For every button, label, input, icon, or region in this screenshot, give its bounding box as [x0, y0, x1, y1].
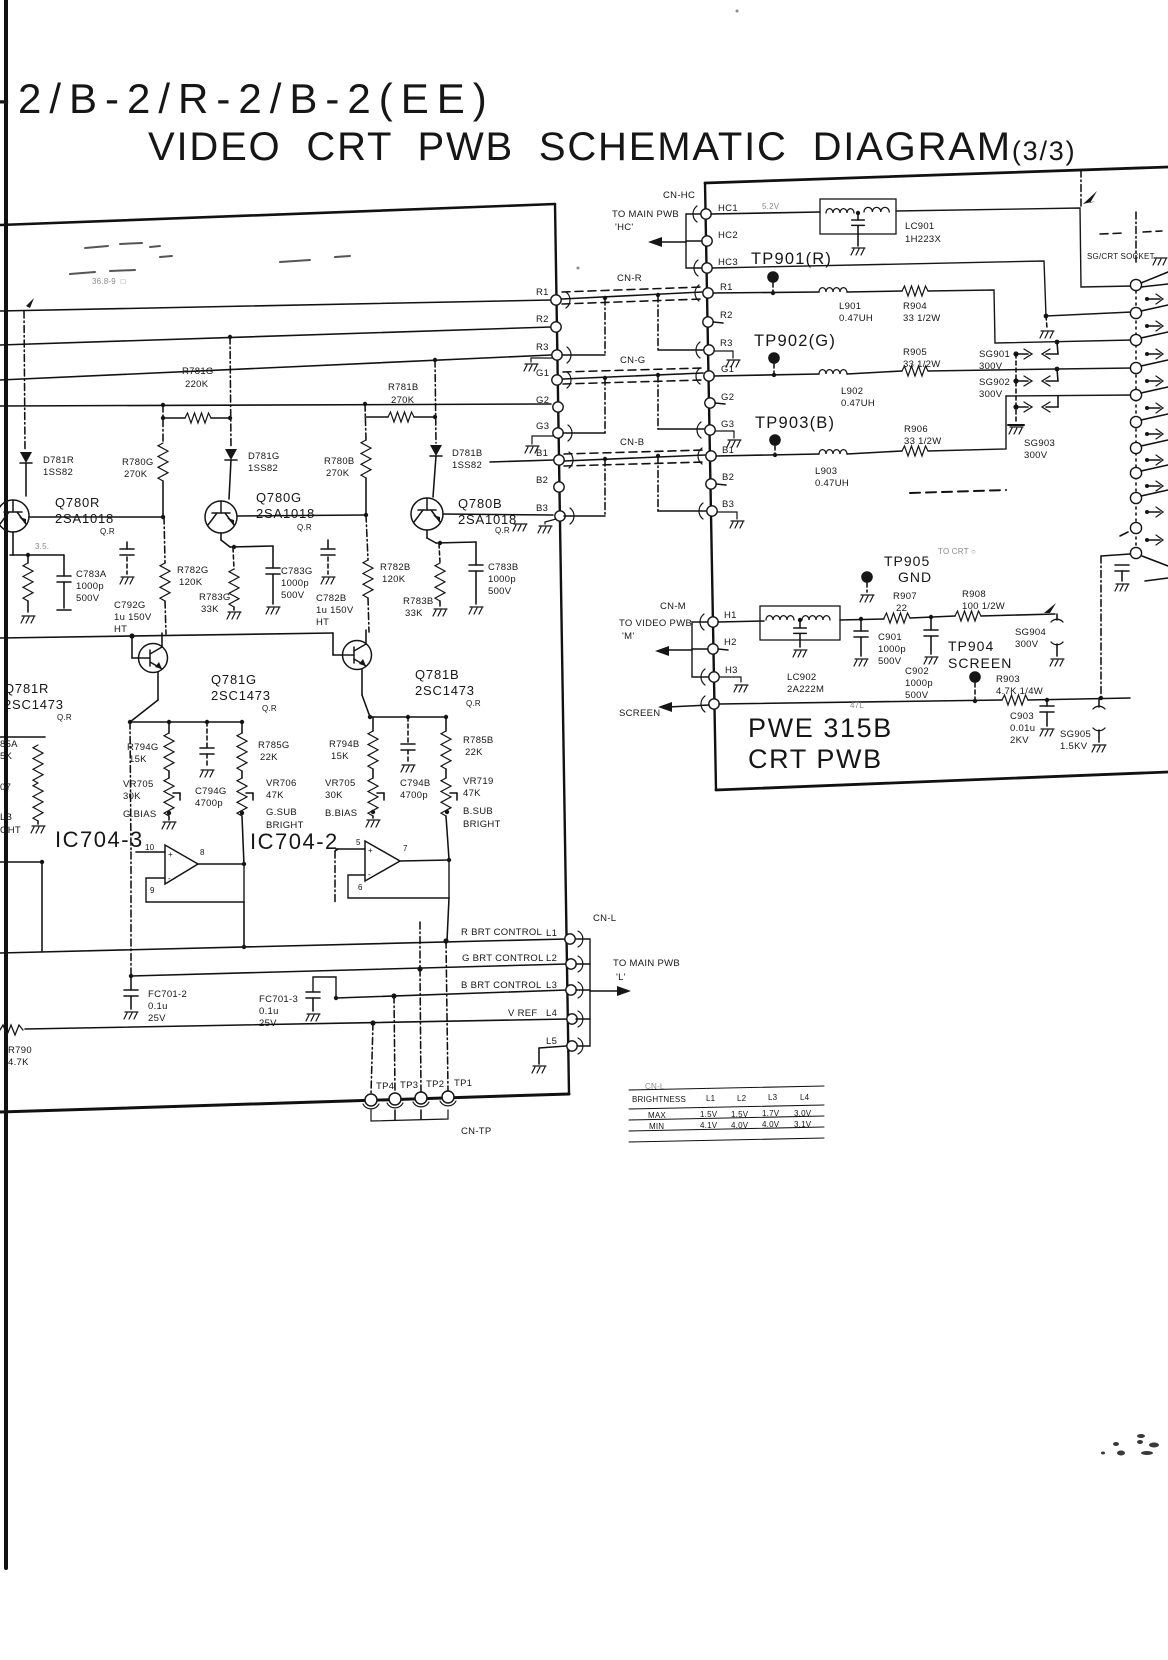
- svg-text:Q781R: Q781R: [4, 681, 49, 696]
- right box pins H1-H3 SCREEN: [708, 617, 718, 627]
- svg-text:30K: 30K: [123, 791, 141, 802]
- resistor R790 4.7K: [0, 1025, 23, 1035]
- svg-text:G3: G3: [721, 419, 734, 430]
- svg-text:B.BIAS: B.BIAS: [325, 808, 357, 819]
- socket pin 6: [1130, 416, 1141, 427]
- svg-text:HC3: HC3: [718, 257, 738, 268]
- socket pin 7: [1130, 442, 1141, 453]
- svg-text:2SA1018: 2SA1018: [256, 506, 315, 521]
- svg-text:CN-M: CN-M: [660, 601, 686, 612]
- svg-text:C783G: C783G: [281, 566, 313, 577]
- svg-text:'L': 'L': [616, 972, 626, 983]
- svg-text:L5: L5: [546, 1036, 557, 1047]
- svg-text:R790: R790: [8, 1045, 32, 1056]
- svg-text:B1: B1: [536, 448, 548, 459]
- svg-text:C783B: C783B: [488, 562, 519, 573]
- svg-text:L902: L902: [841, 386, 863, 397]
- svg-text:2SC1473: 2SC1473: [415, 683, 475, 698]
- svg-text:G3: G3: [536, 421, 549, 432]
- svg-text:Q781G: Q781G: [211, 672, 257, 687]
- node arrow mark: [26, 298, 34, 308]
- svg-text:1000p: 1000p: [488, 574, 516, 585]
- cable CN-G: [563, 368, 703, 384]
- svg-text:SG901: SG901: [979, 349, 1010, 360]
- connector CN-HC bracket: [686, 214, 702, 268]
- svg-text:33 1/2W: 33 1/2W: [903, 359, 940, 370]
- svg-text:TP905: TP905: [884, 553, 930, 569]
- resistor R785G 22K: [241, 722, 243, 733]
- svg-text:CN-L: CN-L: [645, 1082, 665, 1091]
- G bias rail: [157, 672, 159, 700]
- diode D781B 1SS82: [430, 445, 442, 456]
- svg-text:SG/CRT SOCKET: SG/CRT SOCKET: [1087, 252, 1155, 261]
- pot VR705 30K G.BIAS: [168, 771, 170, 778]
- svg-text:4.1V: 4.1V: [700, 1121, 718, 1130]
- spark gap SG905 1.5KV: [1098, 698, 1100, 707]
- svg-text:2SA1018: 2SA1018: [55, 511, 114, 526]
- svg-text:R785G: R785G: [258, 740, 290, 751]
- cable CN-R: [562, 287, 702, 304]
- socket arrow: [1145, 484, 1149, 488]
- wire to socket pin3: [928, 290, 1133, 343]
- resistor R794G 15K: [168, 722, 170, 733]
- svg-text:TP1: TP1: [454, 1078, 472, 1089]
- socket arrow: [1145, 458, 1149, 462]
- inductor L901 0.47UH: [819, 288, 847, 292]
- svg-text:R906: R906: [904, 424, 928, 435]
- svg-text:LB: LB: [0, 812, 12, 823]
- svg-text:10: 10: [145, 843, 155, 852]
- svg-text:0.1u: 0.1u: [148, 1001, 168, 1012]
- svg-text:0.01u: 0.01u: [1010, 723, 1035, 734]
- svg-text:C782B: C782B: [316, 593, 347, 604]
- svg-text:SG904: SG904: [1015, 627, 1046, 638]
- svg-text:R905: R905: [903, 347, 927, 358]
- svg-text:0.47UH: 0.47UH: [839, 313, 873, 324]
- svg-text:Q.R: Q.R: [100, 527, 115, 536]
- wire HC1 to LC901: [711, 212, 820, 214]
- svg-text:22K: 22K: [260, 752, 278, 763]
- resistor R782B 120K: [366, 515, 368, 560]
- svg-text:1000p: 1000p: [281, 578, 309, 589]
- svg-text:TP902(G): TP902(G): [754, 332, 836, 350]
- vertical chain x=163: [162, 405, 164, 443]
- svg-text:TO MAIN PWB: TO MAIN PWB: [612, 209, 679, 220]
- left box right edge: [555, 204, 569, 1094]
- svg-text:270K: 270K: [124, 469, 148, 480]
- svg-text:L4: L4: [800, 1093, 810, 1102]
- stray dashed line: [910, 490, 1006, 493]
- svg-text:15K: 15K: [129, 754, 147, 765]
- vertical to TP4: [371, 1023, 373, 1094]
- svg-text:D781R: D781R: [43, 455, 74, 466]
- svg-text:R908: R908: [962, 589, 986, 600]
- wire Q780B collector node: [426, 530, 428, 538]
- svg-text:SG902: SG902: [979, 377, 1010, 388]
- svg-text:300V: 300V: [1015, 639, 1039, 650]
- svg-text:85A: 85A: [0, 739, 18, 750]
- svg-text:G.BIAS: G.BIAS: [123, 809, 156, 820]
- socket pin 1: [1130, 279, 1141, 290]
- pot VR719 47K B.SUB BRIGHT: [445, 769, 447, 778]
- svg-text:1000p: 1000p: [905, 678, 933, 689]
- svg-text:L903: L903: [815, 466, 837, 477]
- svg-text:R785B: R785B: [463, 735, 494, 746]
- ground at right G3: [715, 431, 734, 438]
- svg-text:7: 7: [403, 844, 408, 853]
- capacitor FC701-3 0.1u 25V: [313, 977, 336, 998]
- svg-text:GND: GND: [898, 569, 932, 585]
- ground at left R3: [531, 358, 552, 362]
- svg-text:R781B: R781B: [388, 382, 419, 393]
- vertical chain x=435: [435, 360, 436, 443]
- wire B1 row right box: [716, 454, 819, 456]
- svg-text:25V: 25V: [259, 1018, 277, 1029]
- svg-text:Q780R: Q780R: [55, 495, 100, 510]
- svg-text:L3: L3: [546, 980, 557, 991]
- svg-text:R2: R2: [720, 310, 733, 321]
- svg-text:500V: 500V: [281, 590, 305, 601]
- svg-text:-2/B-2/R-2/B-2(EE): -2/B-2/R-2/B-2(EE): [0, 75, 495, 122]
- svg-text:MIN: MIN: [649, 1122, 664, 1131]
- svg-text:TP904: TP904: [948, 638, 994, 654]
- socket pin 10: [1130, 522, 1141, 533]
- svg-text:H1: H1: [724, 610, 737, 621]
- svg-text:1000p: 1000p: [76, 581, 104, 592]
- svg-text:TP901(R): TP901(R): [751, 250, 832, 268]
- svg-text:5.2V: 5.2V: [762, 202, 780, 211]
- B bias rail: [361, 669, 363, 695]
- vertical to TP3: [394, 996, 395, 1093]
- capacitor C782B 1u 150V HT: [327, 540, 329, 549]
- svg-text:2SC1473: 2SC1473: [4, 697, 64, 712]
- svg-text:33 1/2W: 33 1/2W: [904, 436, 941, 447]
- resistor R785A cut: [33, 745, 43, 783]
- svg-text:4.0V: 4.0V: [731, 1121, 749, 1130]
- svg-text:0.47UH: 0.47UH: [841, 398, 875, 409]
- svg-text:270K: 270K: [326, 468, 350, 479]
- socket pin 9: [1130, 492, 1141, 503]
- vertical chain x=365: [365, 404, 366, 440]
- svg-text:D781G: D781G: [248, 451, 280, 462]
- svg-text:1000p: 1000p: [878, 644, 906, 655]
- vertical to TP1: [446, 941, 448, 1091]
- test point TP4: [365, 1094, 377, 1106]
- svg-text:4.7K 1/4W: 4.7K 1/4W: [996, 686, 1043, 697]
- wire L5 stub and ground: [539, 1046, 566, 1048]
- right box bottom edge: [716, 772, 1168, 790]
- svg-text:36.8-9 □: 36.8-9 □: [92, 277, 126, 286]
- svg-text:Q.R: Q.R: [262, 704, 277, 713]
- capacitor C902 1000p 500V: [930, 617, 932, 630]
- svg-text:VR705: VR705: [123, 779, 154, 790]
- svg-text:C783A: C783A: [76, 569, 107, 580]
- wire: [1028, 698, 1130, 700]
- svg-text:500V: 500V: [76, 593, 100, 604]
- svg-text:OHT: OHT: [0, 825, 21, 836]
- svg-text:BRIGHT: BRIGHT: [463, 819, 501, 830]
- svg-text:BRIGHTNESS: BRIGHTNESS: [632, 1095, 686, 1104]
- svg-text:120K: 120K: [382, 574, 406, 585]
- svg-text:C902: C902: [905, 666, 929, 677]
- pen arrow mark: [1083, 191, 1097, 204]
- svg-text:300V: 300V: [979, 361, 1003, 372]
- svg-text:HC2: HC2: [718, 230, 738, 241]
- stub H2: [718, 649, 728, 650]
- resistor R905 33 1/2W: [902, 366, 928, 376]
- svg-text:1SS82: 1SS82: [248, 463, 278, 474]
- svg-text:'HC': 'HC': [615, 222, 634, 233]
- svg-text:R2: R2: [536, 314, 549, 325]
- CN-TP bracket: [371, 1110, 448, 1121]
- capacitor C794B 4700p: [407, 717, 409, 744]
- faint top dot: [736, 10, 739, 13]
- svg-text:MAX: MAX: [648, 1111, 666, 1120]
- socket arrow: [1145, 432, 1149, 436]
- svg-text:G2: G2: [536, 395, 549, 406]
- resistor R783A: [27, 555, 29, 563]
- spark gap SG903 300V: [1013, 404, 1018, 409]
- svg-text:L2: L2: [546, 953, 557, 964]
- svg-text:B BRT CONTROL: B BRT CONTROL: [461, 980, 542, 991]
- svg-text:220K: 220K: [185, 379, 209, 390]
- stub B2: [716, 484, 726, 485]
- svg-text:R783B: R783B: [403, 596, 434, 607]
- inductor L903 0.47UH: [819, 450, 847, 454]
- svg-text:C794G: C794G: [195, 786, 227, 797]
- wire to socket pin4: [928, 368, 1133, 371]
- ground: [21, 616, 35, 623]
- vertical to TP2: [420, 922, 421, 1092]
- vertical chain x=230: [230, 337, 231, 447]
- wire G1 row right box: [714, 374, 819, 376]
- svg-text:2SC1473: 2SC1473: [211, 688, 271, 703]
- wire Q780G collector node: [220, 533, 222, 540]
- svg-text:47K: 47K: [463, 788, 481, 799]
- arrow to main pwb L: [590, 990, 620, 992]
- svg-text:4700p: 4700p: [195, 798, 223, 809]
- screen wire: [719, 700, 1002, 704]
- capacitor at socket bottom: [1115, 565, 1129, 571]
- vertical from screen wire to socket: [1100, 556, 1102, 698]
- svg-text:CN-R: CN-R: [617, 273, 642, 284]
- capacitor C783B 1000p 500V: [475, 542, 477, 565]
- resistor R782G 120K: [164, 517, 165, 563]
- right box left edge: [705, 183, 716, 790]
- svg-text:PWE 315B: PWE 315B: [748, 713, 893, 743]
- diode D781G 1SS82: [225, 449, 237, 460]
- transistor Q780R 2SA1018: [0, 500, 29, 532]
- wire to SG904: [981, 614, 1055, 616]
- vertical chain x=24 to diode D781R: [24, 311, 25, 451]
- left box bottom edge: [0, 1094, 569, 1112]
- svg-text:'M': 'M': [622, 631, 634, 642]
- svg-text:1.5KV: 1.5KV: [1060, 741, 1088, 752]
- svg-text:B2: B2: [536, 475, 548, 486]
- svg-text:R781G: R781G: [182, 366, 214, 377]
- connector CN-M bracket: [692, 622, 709, 677]
- svg-text:R1: R1: [536, 287, 549, 298]
- svg-text:47L: 47L: [850, 701, 864, 710]
- svg-text:HC1: HC1: [718, 203, 738, 214]
- resistor R794B 15K: [372, 717, 374, 731]
- ground at left G3: [532, 436, 553, 444]
- svg-text:B2: B2: [722, 472, 734, 483]
- wire R2 row: [0, 327, 551, 345]
- svg-text:CN-B: CN-B: [620, 437, 644, 448]
- svg-text:+: +: [168, 850, 173, 859]
- ground at right B3: [717, 512, 737, 519]
- socket pin 8: [1130, 467, 1141, 478]
- svg-text:3.1V: 3.1V: [794, 1120, 812, 1129]
- svg-text:TP3: TP3: [400, 1080, 418, 1091]
- svg-text:4.7K: 4.7K: [8, 1057, 29, 1068]
- wire: [910, 616, 955, 618]
- svg-text:FC701-3: FC701-3: [259, 994, 298, 1005]
- svg-text:TO MAIN PWB: TO MAIN PWB: [613, 958, 680, 969]
- socket arrow: [1145, 297, 1149, 301]
- wire L4 V REF: [25, 1019, 568, 1029]
- svg-text:300V: 300V: [979, 389, 1003, 400]
- svg-text:R782G: R782G: [177, 565, 209, 576]
- wire L2 G BRT CONTROL: [131, 964, 567, 976]
- left box pins R1-B3: [551, 295, 561, 305]
- capacitor C794G 4700p: [206, 722, 208, 748]
- left box top edge: [0, 204, 555, 225]
- right box pins HC1-B3: [701, 209, 711, 219]
- brightness table: [629, 1086, 824, 1142]
- resistor R783G 33K: [233, 548, 234, 569]
- ground at right R3: [714, 351, 733, 358]
- vertical net x=335 B channel: [334, 851, 336, 902]
- svg-text:3.5.: 3.5.: [35, 542, 49, 551]
- svg-text:Q.R: Q.R: [297, 523, 312, 532]
- ground at B3 pin area: [513, 524, 527, 531]
- svg-text:1SS82: 1SS82: [452, 460, 482, 471]
- screen wire out arrow: [668, 705, 709, 707]
- svg-text:500V: 500V: [488, 586, 512, 597]
- svg-text:33 1/2W: 33 1/2W: [903, 313, 940, 324]
- svg-text:VR719: VR719: [463, 776, 494, 787]
- capacitor C903 0.01u 2KV: [1046, 700, 1048, 706]
- svg-text:VIDEO CRT PWB SCHEMATIC DIAGRA: VIDEO CRT PWB SCHEMATIC DIAGRAM(3/3): [148, 125, 1076, 169]
- svg-text:07: 07: [0, 782, 11, 793]
- svg-text:R907: R907: [893, 591, 917, 602]
- socket arrow: [1145, 510, 1149, 514]
- resistor R907 22: [884, 613, 910, 623]
- svg-text:25V: 25V: [148, 1013, 166, 1024]
- socket pin 11: [1130, 547, 1141, 558]
- emitter rail: [0, 633, 333, 638]
- svg-text:L1: L1: [546, 928, 557, 939]
- svg-text:270K: 270K: [391, 395, 415, 406]
- svg-text:CN-TP: CN-TP: [461, 1126, 492, 1137]
- svg-text:R782B: R782B: [380, 562, 411, 573]
- socket arrow: [1145, 324, 1149, 328]
- svg-text:0.1u: 0.1u: [259, 1006, 279, 1017]
- svg-text:R3: R3: [720, 338, 733, 349]
- svg-text:B3: B3: [536, 503, 548, 514]
- svg-text:HT: HT: [316, 617, 329, 628]
- svg-text:47K: 47K: [266, 790, 284, 801]
- svg-text:C794B: C794B: [400, 778, 431, 789]
- wire G2 row: [0, 404, 551, 406]
- svg-text:TP4: TP4: [376, 1081, 394, 1092]
- wire R1 row right box: [713, 292, 819, 293]
- svg-text:Q.R: Q.R: [466, 699, 481, 708]
- svg-text:1.5V: 1.5V: [731, 1110, 749, 1119]
- svg-text:L3: L3: [768, 1093, 778, 1102]
- wire to B1 pin: [490, 460, 554, 462]
- svg-text:9: 9: [150, 886, 155, 895]
- svg-text:R780G: R780G: [122, 457, 154, 468]
- connector CN-L pins: [565, 934, 575, 944]
- svg-text:SCREEN: SCREEN: [948, 655, 1012, 671]
- svg-text:5: 5: [356, 838, 361, 847]
- test point TP1: [442, 1091, 454, 1103]
- capacitor C783A 1000p 500V: [63, 555, 65, 576]
- svg-text:2KV: 2KV: [1010, 735, 1029, 746]
- svg-text:H3: H3: [725, 665, 738, 676]
- resistor R780G 270K: [158, 443, 168, 481]
- svg-text:30K: 30K: [325, 790, 343, 801]
- stub G2: [715, 403, 725, 404]
- socket arrow: [1145, 538, 1149, 542]
- resistor R780B 270K: [361, 440, 371, 478]
- svg-text:100 1/2W: 100 1/2W: [962, 601, 1005, 612]
- wire R1 row: [0, 300, 551, 311]
- resistor R785B 22K: [445, 717, 447, 731]
- cable CN-B: [564, 450, 705, 466]
- socket pin 3: [1130, 334, 1141, 345]
- transistor Q781G 2SC1473: [139, 644, 168, 673]
- svg-text:Q.R: Q.R: [495, 526, 510, 535]
- pot VR cut: [33, 783, 43, 821]
- svg-text:Q780G: Q780G: [256, 490, 302, 505]
- svg-text:R1: R1: [720, 282, 733, 293]
- op-amp IC704-3: [165, 845, 198, 884]
- svg-text:500V: 500V: [878, 656, 902, 667]
- wire L1 R BRT CONTROL: [0, 939, 566, 953]
- wire to socket pin5: [928, 395, 1133, 451]
- svg-text:D781B: D781B: [452, 448, 483, 459]
- wire R3 row: [0, 355, 551, 380]
- svg-text:G2: G2: [721, 392, 734, 403]
- wire LC901 to socket pin1: [896, 208, 1133, 287]
- svg-text:HT: HT: [114, 624, 127, 635]
- svg-text:500V: 500V: [905, 690, 929, 701]
- transistor Q780G 2SA1018: [205, 501, 237, 533]
- socket arrow: [1145, 352, 1149, 356]
- wire L3 B BRT CONTROL: [336, 990, 567, 998]
- top right faint vertical: [1080, 170, 1082, 208]
- wire Q780G base: [237, 515, 366, 516]
- svg-text:33K: 33K: [405, 608, 423, 619]
- svg-text:CN-HC: CN-HC: [663, 190, 695, 201]
- svg-text:R780B: R780B: [324, 456, 355, 467]
- wire from page edge to L1 net: [0, 861, 42, 863]
- svg-text:TP2: TP2: [426, 1079, 444, 1090]
- svg-text:L901: L901: [839, 301, 861, 312]
- socket pin 4: [1130, 362, 1141, 373]
- svg-text:R794G: R794G: [127, 742, 159, 753]
- svg-text:VR706: VR706: [266, 778, 297, 789]
- capacitor C901 1000p 500V: [860, 619, 862, 631]
- svg-text:1SS82: 1SS82: [43, 467, 73, 478]
- svg-text:CRT PWB: CRT PWB: [748, 744, 883, 774]
- test point TP3: [389, 1093, 401, 1105]
- filter LC901 1H223X: [820, 199, 896, 234]
